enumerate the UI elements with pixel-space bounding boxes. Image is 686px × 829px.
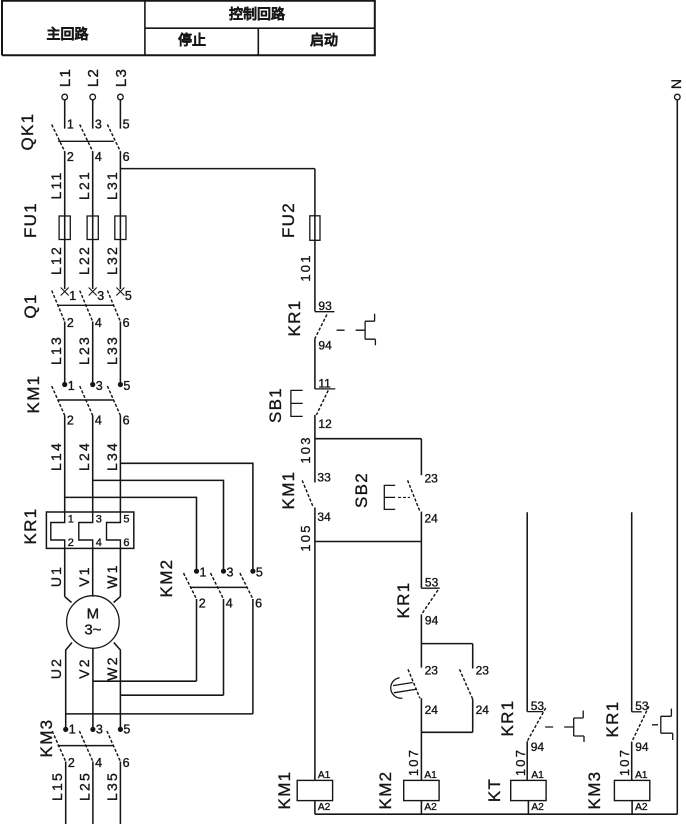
svg-text:A1: A1	[531, 770, 544, 781]
wire	[420, 615, 422, 668]
svg-text:A2: A2	[424, 802, 437, 813]
svg-text:3: 3	[227, 566, 234, 580]
svg-text:6: 6	[123, 537, 129, 549]
svg-text:34: 34	[317, 510, 331, 524]
svg-text:5: 5	[256, 566, 263, 580]
KM3 pole pin 5-6	[118, 727, 122, 731]
svg-text:6: 6	[123, 756, 130, 770]
svg-text:L2: L2	[85, 68, 102, 87]
svg-text:105: 105	[298, 523, 313, 551]
wire	[92, 322, 94, 384]
svg-text:94: 94	[635, 740, 649, 754]
svg-text:L23: L23	[76, 335, 92, 365]
svg-text:23: 23	[425, 664, 439, 678]
wire W2 to KM2 pole2	[120, 694, 223, 696]
motor M1 three-phase	[67, 596, 120, 649]
svg-text:94: 94	[318, 339, 332, 353]
svg-text:24: 24	[476, 703, 490, 717]
wire	[196, 599, 198, 681]
svg-text:1: 1	[69, 723, 76, 737]
svg-text:U2: U2	[48, 657, 64, 679]
wire	[119, 100, 121, 129]
svg-text:L24: L24	[76, 441, 92, 471]
KM1 pole pin 3-4	[91, 382, 95, 386]
svg-text:3: 3	[97, 289, 104, 303]
svg-text:53: 53	[425, 576, 439, 590]
wire	[314, 508, 316, 542]
svg-text:KM1: KM1	[279, 471, 298, 510]
svg-text:1: 1	[200, 566, 207, 580]
svg-text:4: 4	[96, 537, 102, 549]
svg-text:L3: L3	[113, 68, 130, 87]
wire KM3 branch	[631, 512, 633, 712]
svg-text:107: 107	[513, 748, 528, 776]
SB2 actuator	[384, 485, 395, 509]
svg-text:QK1: QK1	[18, 113, 37, 151]
KM1 linkage bar	[58, 399, 114, 401]
wire	[314, 542, 316, 781]
wire	[64, 152, 66, 290]
KM2 linkage bar	[190, 586, 247, 588]
KM3 pole pin 3-4	[91, 727, 95, 731]
svg-text:2: 2	[199, 596, 206, 610]
wire	[119, 416, 121, 513]
svg-text:KT: KT	[485, 778, 504, 802]
wire node105	[315, 541, 422, 543]
svg-text:FU2: FU2	[279, 202, 298, 238]
svg-text:KR1: KR1	[394, 582, 413, 619]
svg-text:A1: A1	[424, 770, 437, 781]
svg-text:24: 24	[425, 703, 439, 717]
svg-text:V2: V2	[76, 657, 92, 679]
wire	[314, 415, 316, 483]
KR1 trip actuator symbol	[545, 711, 584, 743]
svg-text:107: 107	[406, 748, 421, 776]
QK1 linkage bar	[58, 140, 114, 142]
svg-text:KM2: KM2	[376, 771, 395, 810]
svg-text:L22: L22	[76, 245, 92, 275]
KM3 pole pin 1-2	[64, 727, 68, 731]
svg-text:1: 1	[69, 289, 76, 303]
wire	[314, 169, 316, 312]
wire	[314, 339, 316, 389]
svg-text:L33: L33	[104, 335, 120, 365]
svg-text:V1: V1	[76, 565, 92, 587]
svg-text:U1: U1	[48, 565, 64, 587]
svg-text:103: 103	[298, 435, 313, 463]
svg-text:KM3: KM3	[585, 771, 604, 810]
wire	[119, 548, 121, 596]
svg-text:3: 3	[95, 118, 102, 132]
wire motor lead-in right	[114, 597, 121, 603]
svg-text:94: 94	[425, 614, 439, 628]
KR1 heater element pin 5-6	[107, 512, 121, 548]
svg-text:12: 12	[318, 417, 332, 431]
KM2 pole pin 1-2	[194, 569, 198, 573]
Q1 pole pin 1-2	[61, 288, 69, 296]
svg-text:23: 23	[476, 664, 490, 678]
wire	[64, 100, 66, 129]
KR1 heater element pin 1-2	[51, 512, 65, 548]
wire	[119, 152, 121, 290]
svg-text:控制回路: 控制回路	[229, 6, 286, 22]
wire motor lead-in left	[65, 597, 72, 603]
svg-text:6: 6	[123, 414, 130, 428]
svg-text:KR1: KR1	[21, 508, 40, 545]
svg-text:107: 107	[617, 748, 632, 776]
svg-text:SB2: SB2	[352, 472, 371, 508]
svg-text:启动: 启动	[310, 32, 338, 48]
svg-text:L11: L11	[48, 171, 64, 200]
svg-text:FU1: FU1	[21, 202, 40, 238]
KR1 trip actuator symbol (right)	[652, 709, 673, 740]
svg-text:2: 2	[67, 150, 74, 164]
svg-text:L32: L32	[104, 245, 120, 275]
svg-text:W2: W2	[104, 655, 120, 680]
svg-text:L21: L21	[76, 170, 92, 200]
svg-text:5: 5	[125, 289, 132, 303]
svg-text:L35: L35	[104, 771, 120, 801]
wire	[119, 322, 121, 384]
wire branch phase3 to KM2	[120, 463, 253, 571]
svg-text:停止: 停止	[178, 32, 206, 48]
svg-text:M: M	[87, 606, 100, 623]
wire branch phase1 to KM2	[65, 497, 197, 570]
svg-text:23: 23	[425, 472, 439, 486]
svg-text:4: 4	[226, 596, 233, 610]
svg-text:101: 101	[298, 253, 313, 281]
svg-text:主回路: 主回路	[47, 26, 90, 42]
wire U2 to KM2 pole3	[66, 713, 253, 715]
Q1 pole pin 3-4	[89, 288, 97, 296]
svg-text:KM1: KM1	[275, 771, 294, 810]
wire	[420, 512, 422, 542]
svg-text:A1: A1	[318, 770, 331, 781]
KR1 trip actuator symbol	[337, 314, 376, 346]
svg-text:3: 3	[96, 723, 103, 737]
SB2 actuator link	[398, 496, 410, 498]
svg-text:4: 4	[95, 316, 102, 330]
wire	[631, 742, 633, 780]
svg-text:L31: L31	[104, 170, 120, 200]
wire	[314, 801, 316, 815]
svg-text:1: 1	[68, 379, 75, 393]
svg-text:3: 3	[96, 379, 103, 393]
wire	[420, 698, 422, 780]
wire branch phase2 to KM2	[93, 480, 224, 570]
title table	[1, 1, 376, 56]
KM1 pole pin 5-6	[118, 382, 122, 386]
wire motor lead-out right W2	[114, 643, 121, 730]
svg-text:1: 1	[68, 514, 74, 526]
wire	[631, 801, 633, 815]
svg-text:5: 5	[123, 723, 130, 737]
svg-text:L12: L12	[48, 245, 64, 275]
svg-text:1: 1	[67, 118, 74, 132]
KM1 pole pin 1-2	[63, 382, 67, 386]
svg-text:KM1: KM1	[24, 375, 43, 414]
svg-text:6: 6	[123, 316, 130, 330]
svg-text:L34: L34	[104, 441, 120, 471]
svg-text:L14: L14	[48, 441, 64, 471]
svg-text:KM3: KM3	[37, 719, 56, 758]
wire	[526, 741, 528, 780]
KM2 pole pin 3-4	[221, 569, 225, 573]
svg-text:6: 6	[123, 150, 130, 164]
svg-text:5: 5	[123, 118, 130, 132]
svg-text:93: 93	[318, 299, 332, 313]
wire	[64, 416, 66, 513]
svg-text:A2: A2	[635, 802, 648, 813]
wire	[420, 801, 422, 815]
svg-text:2: 2	[67, 316, 74, 330]
wire N bus	[676, 100, 678, 814]
svg-text:A2: A2	[318, 802, 331, 813]
svg-text:L25: L25	[76, 771, 92, 801]
svg-text:A1: A1	[635, 770, 648, 781]
svg-text:3: 3	[96, 514, 102, 526]
svg-text:2: 2	[68, 537, 74, 549]
wire KT branch	[526, 512, 528, 711]
wire node103 branch	[315, 438, 422, 440]
svg-text:2: 2	[68, 756, 75, 770]
wire parallel rejoin	[421, 731, 472, 733]
svg-text:L1: L1	[57, 68, 74, 87]
svg-text:N: N	[668, 77, 684, 89]
wire	[92, 762, 94, 825]
svg-text:6: 6	[255, 596, 262, 610]
Q1 linkage bar	[58, 304, 113, 306]
svg-text:L15: L15	[49, 771, 65, 801]
svg-text:KM2: KM2	[157, 559, 176, 598]
svg-text:W1: W1	[104, 563, 120, 588]
svg-text:5: 5	[123, 514, 129, 526]
svg-text:24: 24	[425, 512, 439, 526]
svg-text:4: 4	[95, 414, 102, 428]
wire	[92, 100, 94, 129]
svg-text:SB1: SB1	[266, 387, 285, 423]
svg-text:3~: 3~	[84, 622, 101, 639]
svg-text:KR1: KR1	[285, 300, 304, 337]
wire motor lead-out left U2	[66, 643, 72, 730]
svg-text:L13: L13	[48, 335, 64, 365]
wire	[65, 762, 67, 825]
wire	[92, 416, 94, 513]
wire	[252, 599, 254, 714]
svg-text:94: 94	[531, 740, 545, 754]
Q1 pole pin 5-6	[116, 288, 124, 296]
svg-text:KR1: KR1	[498, 700, 517, 737]
SB1 actuator	[291, 390, 303, 416]
svg-text:4: 4	[95, 150, 102, 164]
wire SB2 branch	[420, 439, 422, 476]
svg-text:A2: A2	[531, 802, 544, 813]
wire	[527, 801, 529, 815]
svg-text:2: 2	[67, 414, 74, 428]
svg-text:Q1: Q1	[21, 293, 40, 318]
svg-text:53: 53	[531, 699, 545, 713]
wire parallel split	[421, 643, 472, 645]
wire V2 to KM2 pole1	[93, 680, 197, 682]
wire	[223, 599, 225, 695]
svg-text:5: 5	[123, 379, 130, 393]
wire	[64, 322, 66, 384]
svg-text:33: 33	[317, 471, 331, 485]
wire	[92, 152, 94, 290]
KR1 heater element pin 3-4	[79, 512, 93, 548]
wire to control circuit	[120, 168, 315, 170]
wire	[119, 762, 121, 825]
svg-text:KR1: KR1	[603, 701, 622, 738]
KM3 linkage bar	[58, 745, 114, 747]
KT delay symbol	[389, 675, 418, 699]
wire	[92, 548, 94, 596]
wire motor lead-out mid V2	[92, 648, 94, 729]
wire	[64, 548, 66, 596]
wire	[420, 542, 422, 589]
svg-text:4: 4	[95, 756, 102, 770]
KM2 pole pin 5-6	[251, 569, 255, 573]
wire	[472, 699, 474, 732]
wire bottom rail	[315, 813, 677, 815]
